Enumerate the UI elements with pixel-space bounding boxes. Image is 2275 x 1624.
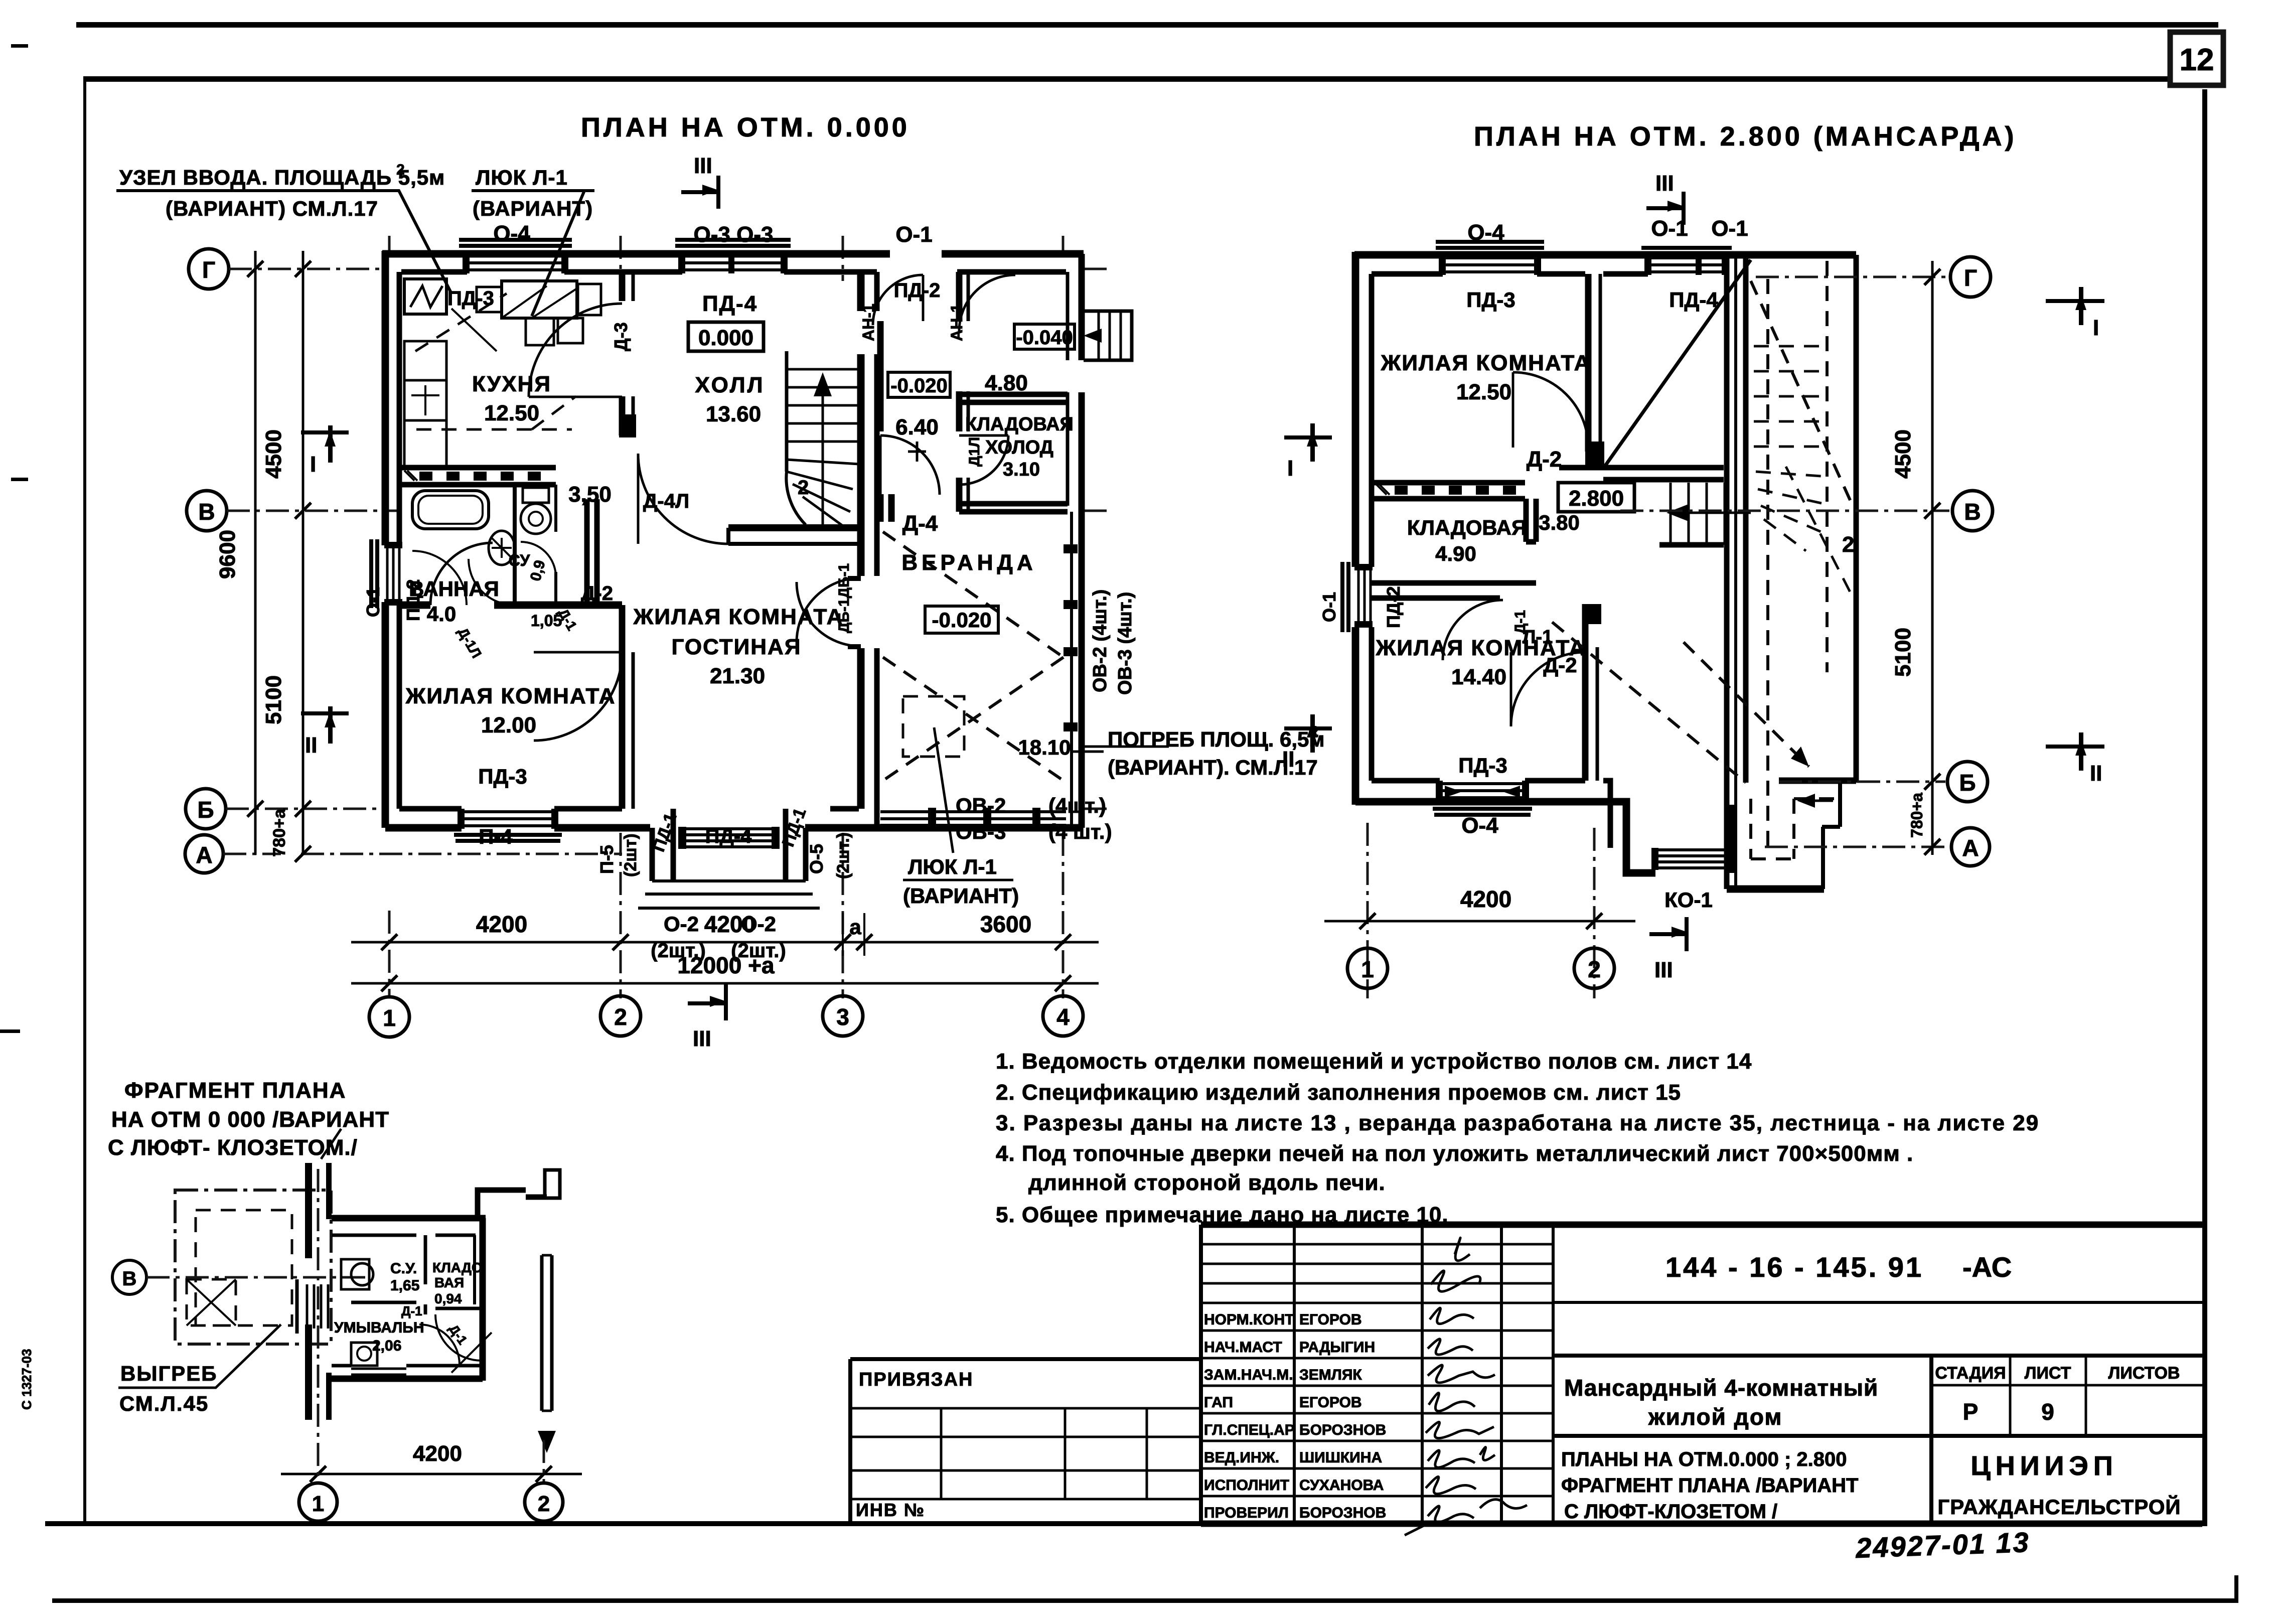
fragment main vertical wall bbox=[297, 1163, 332, 1420]
svg-text:2: 2 bbox=[1842, 532, 1854, 557]
svg-text:ПД-3: ПД-3 bbox=[447, 287, 494, 310]
right plan window О-1 left wall bbox=[1342, 562, 1373, 632]
svg-text:ВЕД.ИНЖ.: ВЕД.ИНЖ. bbox=[1204, 1449, 1279, 1466]
window О-1 left wall bbox=[371, 539, 402, 608]
sheet name cell bbox=[1561, 1448, 1858, 1523]
exterior wall top inner line bbox=[401, 269, 1066, 275]
toilet bbox=[521, 488, 551, 534]
svg-text:4500: 4500 bbox=[1891, 429, 1915, 479]
svg-text:ВАННАЯ: ВАННАЯ bbox=[409, 577, 499, 601]
label ПД-3 bottom bbox=[478, 765, 527, 788]
section mark I right of plans bbox=[2046, 287, 2104, 340]
svg-text:(4 шт.): (4 шт.) bbox=[1048, 820, 1112, 843]
svg-text:Б: Б bbox=[1959, 770, 1976, 796]
svg-text:3.10: 3.10 bbox=[1003, 459, 1040, 480]
label ПД-3 kitchen bbox=[447, 287, 497, 351]
cesspool dashed cross square bbox=[187, 1279, 236, 1325]
kitchen dashed layout lines bbox=[415, 293, 576, 429]
svg-text:ОВ-2 (4шт.): ОВ-2 (4шт.) bbox=[1090, 589, 1111, 692]
svg-text:III: III bbox=[1655, 171, 1674, 196]
title block outer box bbox=[1201, 1225, 2202, 1524]
axis lines vertical left plan bbox=[389, 236, 1063, 998]
cellar hatch dashed square bbox=[903, 696, 964, 757]
label СУ bbox=[509, 551, 549, 583]
svg-text:14.40: 14.40 bbox=[1451, 665, 1506, 689]
svg-text:1: 1 bbox=[1361, 956, 1374, 982]
label Д-2 bbox=[581, 582, 613, 605]
signature table rows bbox=[1201, 1244, 1553, 1496]
stairs right plan dashed winder bbox=[1754, 346, 1850, 592]
svg-text:12: 12 bbox=[2180, 43, 2214, 77]
fragment dimension 4200 bbox=[281, 1169, 582, 1483]
small door arcs wc bbox=[412, 542, 556, 605]
room label КЛАДОВАЯ 4.90 bbox=[1407, 516, 1527, 565]
svg-text:ЛЮК Л-1: ЛЮК Л-1 bbox=[476, 166, 568, 189]
svg-text:6.40: 6.40 bbox=[895, 415, 939, 439]
svg-text:Д-4: Д-4 bbox=[902, 511, 938, 536]
svg-text:2. Спецификацию изделий запо: 2. Спецификацию изделий заполнения проем… bbox=[996, 1080, 1681, 1105]
labels ДБ-1 rotated bbox=[836, 563, 852, 633]
svg-text:4200: 4200 bbox=[1460, 886, 1511, 912]
svg-text:ЦНИИЭП: ЦНИИЭП bbox=[1970, 1451, 2117, 1481]
axis lines horizontal left plan bbox=[223, 269, 1109, 854]
svg-text:ИНВ №: ИНВ № bbox=[856, 1500, 925, 1520]
svg-text:Д-1: Д-1 bbox=[1512, 610, 1529, 634]
svg-text:БОРОЗНОВ: БОРОЗНОВ bbox=[1299, 1422, 1386, 1438]
svg-text:18.10: 18.10 bbox=[1018, 735, 1071, 759]
svg-text:СМ.Л.45: СМ.Л.45 bbox=[119, 1392, 209, 1415]
svg-text:ДБ-1ДБ-1: ДБ-1ДБ-1 bbox=[836, 563, 852, 633]
svg-text:О-4: О-4 bbox=[1461, 813, 1498, 838]
svg-text:ФРАГМЕНТ ПЛАНА /ВАРИАНТ: ФРАГМЕНТ ПЛАНА /ВАРИАНТ bbox=[1561, 1474, 1858, 1497]
svg-text:5100: 5100 bbox=[261, 675, 286, 724]
svg-text:2: 2 bbox=[396, 162, 405, 178]
section mark III top of right plan bbox=[1646, 171, 1686, 225]
svg-text:О-1: О-1 bbox=[363, 587, 383, 617]
veranda left partition wall bbox=[880, 321, 891, 522]
left plan title bbox=[581, 112, 910, 142]
svg-text:С 1327-03: С 1327-03 bbox=[19, 1349, 34, 1410]
labels О-1 ПД-2 rotated left wall bbox=[1319, 586, 1404, 628]
svg-text:СУХАНОВА: СУХАНОВА bbox=[1299, 1477, 1384, 1494]
right plan double wall bbox=[1727, 255, 1746, 889]
svg-text:3600: 3600 bbox=[980, 911, 1031, 937]
svg-text:А: А bbox=[1962, 835, 1979, 861]
labels О-1 ПД-2 left wall bbox=[363, 579, 423, 621]
svg-text:4.90: 4.90 bbox=[1435, 542, 1476, 565]
larder bottom wall bbox=[959, 504, 1068, 512]
window labels О-4 О-1 О-1 right plan bbox=[1467, 216, 1748, 245]
svg-text:780+а: 780+а bbox=[1908, 793, 1926, 838]
svg-text:2: 2 bbox=[538, 1492, 550, 1516]
labels АН-1 rotated bbox=[859, 304, 966, 341]
svg-text:II: II bbox=[1282, 747, 1294, 772]
door Д-3 kitchen arc bbox=[529, 304, 622, 397]
svg-text:I: I bbox=[310, 452, 316, 477]
labels О-5 2шт rotated bbox=[806, 832, 853, 879]
privyazan box bbox=[850, 1359, 1201, 1524]
sheet number box 12 bbox=[2170, 32, 2223, 85]
svg-text:Д1Л: Д1Л bbox=[966, 437, 983, 467]
label Д-3 rotated bbox=[611, 322, 631, 351]
title block middle divider bbox=[1553, 1354, 2202, 1358]
label О-4 right plan bottom bbox=[1461, 813, 1498, 838]
svg-text:ВАЯ: ВАЯ bbox=[434, 1275, 464, 1290]
vent band wall right plan bbox=[1372, 483, 1525, 499]
label 4.80 bbox=[985, 371, 1028, 395]
svg-text:Г: Г bbox=[1964, 265, 1977, 291]
right plan window О-4 top bbox=[1436, 242, 1544, 275]
svg-text:КУХНЯ: КУХНЯ bbox=[472, 372, 551, 396]
svg-text:В: В bbox=[198, 499, 215, 525]
exterior wall left bbox=[385, 251, 399, 828]
svg-text:(2шт.): (2шт.) bbox=[834, 832, 853, 879]
window label О-4 bbox=[493, 221, 530, 246]
svg-text:4500: 4500 bbox=[261, 429, 286, 479]
living-sitting room wall bbox=[622, 605, 633, 809]
svg-text:4200: 4200 bbox=[476, 911, 527, 937]
svg-text:О-2: О-2 bbox=[741, 912, 776, 936]
svg-text:(ВАРИАНТ) СМ.Л.17: (ВАРИАНТ) СМ.Л.17 bbox=[166, 197, 378, 220]
svg-text:КЛАДОВАЯ: КЛАДОВАЯ bbox=[965, 414, 1074, 435]
svg-text:ГРАЖДАНСЕЛЬСТРОЙ: ГРАЖДАНСЕЛЬСТРОЙ bbox=[1937, 1495, 2181, 1519]
svg-text:С ЛЮФТ- КЛОЗЕТОМ./: С ЛЮФТ- КЛОЗЕТОМ./ bbox=[108, 1135, 358, 1160]
svg-text:ПД-4: ПД-4 bbox=[1669, 288, 1718, 312]
svg-text:Д-1: Д-1 bbox=[401, 1303, 422, 1318]
door АН-1 left arc bbox=[873, 275, 923, 325]
svg-text:НА ОТМ 0 000 /ВАРИАНТ: НА ОТМ 0 000 /ВАРИАНТ bbox=[111, 1107, 389, 1132]
kitchen cabinets along left wall bbox=[404, 279, 446, 468]
axis circles left side bbox=[185, 249, 229, 873]
room label КУХНЯ bbox=[472, 372, 551, 425]
doors Д-2 Л-1 arcs right plan middle bbox=[1443, 600, 1585, 726]
door Д-4Л arc bbox=[638, 454, 728, 544]
svg-text:II: II bbox=[305, 733, 317, 758]
window labels О-3 О-3 bbox=[694, 222, 774, 247]
handwritten archive number bbox=[1855, 1526, 2031, 1564]
svg-text:2,06: 2,06 bbox=[372, 1338, 401, 1354]
doors ДБ-1 double arc to living room bbox=[797, 576, 861, 649]
svg-text:ПЛАН НА ОТМ. 2.800 (МАНСАРДА): ПЛАН НА ОТМ. 2.800 (МАНСАРДА) bbox=[1474, 121, 2017, 152]
larder top wall bbox=[959, 394, 1068, 402]
svg-text:-АС: -АС bbox=[1962, 1251, 2012, 1283]
label Д-1Л rotated bbox=[966, 437, 983, 467]
room label ВАННАЯ bbox=[409, 577, 499, 626]
svg-text:3,50: 3,50 bbox=[568, 482, 612, 507]
svg-text:4.0: 4.0 bbox=[427, 602, 456, 626]
svg-text:-0.020: -0.020 bbox=[932, 608, 991, 632]
cesspool dashed outer rect bbox=[175, 1190, 331, 1344]
room2 right wall right plan bbox=[1582, 604, 1601, 781]
fragment toilet bbox=[341, 1259, 373, 1289]
label П-4 bbox=[479, 825, 513, 848]
room label ЖИЛАЯ КОМНАТА 12.50 bbox=[1381, 351, 1591, 404]
svg-text:О-4: О-4 bbox=[1467, 220, 1504, 245]
svg-text:1,65: 1,65 bbox=[390, 1277, 419, 1294]
svg-text:2: 2 bbox=[798, 477, 809, 499]
elevation box 0.000 bbox=[688, 322, 764, 351]
svg-text:780+а: 780+а bbox=[270, 808, 289, 857]
svg-text:1: 1 bbox=[383, 1005, 396, 1031]
svg-text:П-5: П-5 bbox=[596, 845, 617, 874]
elevation box -0.020 veranda bbox=[925, 606, 998, 633]
svg-text:О-1: О-1 bbox=[895, 222, 932, 247]
svg-text:(2шт): (2шт) bbox=[621, 833, 640, 877]
svg-text:21.30: 21.30 bbox=[710, 664, 765, 688]
right plan bottom dimension 4200 bbox=[1324, 886, 1635, 929]
svg-text:НОРМ.КОНТ: НОРМ.КОНТ bbox=[1204, 1311, 1294, 1328]
stairs in hall bbox=[786, 351, 859, 526]
door Д-4 veranda arc bbox=[880, 435, 940, 495]
right plan window ПД-3/О-4 bottom bbox=[1433, 781, 1532, 815]
svg-text:КО-1: КО-1 bbox=[1664, 888, 1713, 912]
label ПД-3 right plan bottom bbox=[1458, 754, 1507, 777]
label ПД-2 tambour bbox=[894, 279, 941, 302]
svg-text:П-4: П-4 bbox=[479, 825, 513, 848]
right plan roof dashed diagonals bbox=[1552, 281, 1853, 783]
title block bottom edge bbox=[1201, 1521, 2202, 1527]
labels Д-2 2800 area bbox=[1512, 447, 1580, 677]
door Д-2 arc right plan top bbox=[1513, 372, 1588, 448]
room label КЛАДОВАЯ ХОЛОД bbox=[965, 414, 1074, 480]
section mark II left of right plan bbox=[1282, 714, 1332, 772]
label ПД-4 hall bbox=[702, 291, 757, 316]
svg-text:ОВ-3: ОВ-3 bbox=[956, 820, 1006, 843]
svg-text:III: III bbox=[1654, 958, 1673, 982]
svg-text:РАДЫГИН: РАДЫГИН bbox=[1299, 1339, 1375, 1356]
svg-text:1: 1 bbox=[312, 1492, 324, 1516]
svg-text:4.80: 4.80 bbox=[985, 371, 1028, 395]
right plan axis lines bbox=[1368, 277, 1949, 998]
window П-4 bottom wall bbox=[454, 809, 562, 841]
signature table labels bbox=[1204, 1311, 1386, 1521]
left vertical dimension lines bbox=[215, 251, 311, 862]
svg-text:-0.020: -0.020 bbox=[890, 375, 947, 397]
svg-text:О-1: О-1 bbox=[1651, 216, 1688, 241]
svg-text:ХОЛОД: ХОЛОД bbox=[985, 437, 1053, 458]
porch bottom middle bbox=[638, 809, 820, 908]
svg-text:3. Разрезы даны на листе 13: 3. Разрезы даны на листе 13 , веранда ра… bbox=[996, 1111, 2039, 1135]
right plan title bbox=[1474, 121, 2017, 152]
fragment right section bar bbox=[538, 1255, 556, 1453]
svg-text:12.50: 12.50 bbox=[484, 401, 539, 425]
svg-text:Д-2: Д-2 bbox=[1527, 447, 1562, 472]
right plan roof dashed verticals bbox=[1768, 255, 1856, 855]
svg-text:ЖИЛАЯ КОМНАТА: ЖИЛАЯ КОМНАТА bbox=[405, 684, 616, 708]
svg-text:Мансардный 4-комнатный: Мансардный 4-комнатный bbox=[1564, 1375, 1878, 1401]
veranda right exterior wall bbox=[1068, 254, 1082, 828]
kitchen-hall wall bbox=[619, 272, 636, 437]
svg-text:ВЕРАНДА: ВЕРАНДА bbox=[901, 550, 1036, 575]
labels ОВ-2 ОВ-3 4шт bottom bbox=[956, 794, 1112, 843]
svg-text:УМЫВАЛЬН: УМЫВАЛЬН bbox=[334, 1319, 424, 1336]
svg-text:длинной стороной вдоль печи: длинной стороной вдоль печи. bbox=[1028, 1170, 1386, 1195]
label ПД-4 right plan top bbox=[1669, 288, 1718, 312]
room label ЖИЛАЯ КОМНАТА 12.00 bbox=[405, 684, 616, 737]
solid roof diagonal in stair void bbox=[1605, 260, 1751, 466]
svg-text:В: В bbox=[1964, 499, 1981, 525]
fragment axis В circle bbox=[112, 1260, 371, 1294]
svg-text:БОРОЗНОВ: БОРОЗНОВ bbox=[1299, 1505, 1386, 1521]
svg-text:ПРОВЕРИЛ: ПРОВЕРИЛ bbox=[1204, 1505, 1289, 1521]
document number 144-16-145.91 bbox=[1553, 1251, 2202, 1302]
svg-text:ПД-4: ПД-4 bbox=[705, 825, 752, 847]
right plan SE dashed step bbox=[1751, 794, 1838, 859]
window О-4 kitchen top bbox=[459, 240, 572, 273]
signature table columns bbox=[1294, 1225, 1553, 1524]
svg-text:3.80: 3.80 bbox=[1539, 511, 1580, 534]
section mark I left side bbox=[301, 425, 349, 477]
svg-text:1. Ведомость отделки помещени: 1. Ведомость отделки помещений и устройс… bbox=[996, 1049, 1752, 1074]
right plan window О-1 top bbox=[1641, 248, 1732, 275]
svg-text:ЛИСТ: ЛИСТ bbox=[2025, 1364, 2071, 1383]
door label О-1 top bbox=[895, 222, 932, 247]
fragment bottom wall bbox=[332, 1366, 483, 1379]
axis circles bottom of left plan bbox=[369, 996, 1083, 1037]
svg-text:ФРАГМЕНТ ПЛАНА: ФРАГМЕНТ ПЛАНА bbox=[124, 1078, 346, 1103]
svg-text:ПД-4: ПД-4 bbox=[702, 291, 757, 316]
svg-text:О-4: О-4 bbox=[493, 221, 530, 246]
svg-text:III: III bbox=[693, 1026, 711, 1051]
veranda dashed floor cross bbox=[883, 532, 1064, 781]
interior wall room1-stairs right plan bbox=[1585, 274, 1604, 466]
hallway partition wall bbox=[587, 499, 597, 602]
leader ПОГРЕБ bbox=[1071, 723, 1324, 779]
svg-text:2: 2 bbox=[614, 1004, 627, 1030]
right plan bottom exterior wall bbox=[1355, 781, 1731, 873]
svg-text:Д-2: Д-2 bbox=[581, 582, 613, 605]
svg-text:О-3 О-3: О-3 О-3 bbox=[694, 222, 774, 247]
elevation box 2.800 bbox=[1558, 483, 1634, 512]
svg-text:(ВАРИАНТ): (ВАРИАНТ) bbox=[903, 884, 1019, 908]
stage table bbox=[1553, 1356, 2202, 1524]
leader note УЗЕЛ ВВОДА bbox=[116, 162, 451, 293]
notes list bbox=[996, 1049, 2039, 1227]
svg-text:АН-1: АН-1 bbox=[859, 304, 877, 341]
labels П-5 2шт rotated bbox=[596, 833, 640, 877]
svg-text:ОВ-2: ОВ-2 bbox=[956, 794, 1006, 817]
svg-text:13.60: 13.60 bbox=[706, 402, 761, 426]
right plan exterior wall left bbox=[1355, 252, 1372, 805]
svg-text:ЛЮК Л-1: ЛЮК Л-1 bbox=[908, 855, 997, 878]
tambour wall vertical bbox=[959, 272, 968, 512]
svg-text:2.800: 2.800 bbox=[1569, 486, 1624, 511]
stair void bottom wall bbox=[1559, 468, 1724, 480]
labels ПД-1 rotated bbox=[649, 806, 810, 854]
veranda south window band ОВ-2 ОВ-3 bbox=[880, 808, 1066, 829]
sheet outer bottom trim line bbox=[52, 1575, 2238, 1603]
section mark I left of right plan bbox=[1284, 423, 1332, 481]
svg-text:О-5: О-5 bbox=[806, 844, 827, 874]
svg-text:ЖИЛАЯ КОМНАТА: ЖИЛАЯ КОМНАТА bbox=[1376, 636, 1586, 660]
svg-text:Б: Б bbox=[197, 797, 214, 823]
larder right wall right plan bbox=[1526, 499, 1536, 542]
svg-text:КЛАДО: КЛАДО bbox=[432, 1260, 483, 1275]
right plan axis circles bottom bbox=[1347, 948, 1614, 988]
label 3.50 hallway bbox=[568, 482, 612, 507]
svg-text:С.У.: С.У. bbox=[390, 1260, 417, 1277]
svg-text:ВЫГРЕБ: ВЫГРЕБ bbox=[120, 1362, 217, 1385]
stairs right plan solid flight bbox=[1659, 483, 1751, 545]
svg-text:ЛИСТОВ: ЛИСТОВ bbox=[2108, 1364, 2180, 1383]
right plan SE solid steps bbox=[1727, 781, 1856, 889]
room label ГОСТИНАЯ 21.30 bbox=[633, 605, 844, 688]
bath-room wall bbox=[401, 543, 622, 605]
svg-text:9600: 9600 bbox=[215, 530, 240, 579]
elevation box -0.040 entry bbox=[1014, 324, 1075, 349]
label ВЫГРЕБ leader bbox=[118, 1324, 281, 1415]
elevation box -0.020 tambour bbox=[888, 372, 950, 397]
wash basin bbox=[489, 531, 515, 565]
svg-text:ЕГОРОВ: ЕГОРОВ bbox=[1299, 1311, 1362, 1328]
svg-text:(2шт.): (2шт.) bbox=[731, 940, 786, 962]
svg-text:ХОЛЛ: ХОЛЛ bbox=[695, 373, 765, 397]
svg-text:Г: Г bbox=[202, 257, 215, 283]
right plan dimension line vertical bbox=[1891, 261, 1940, 855]
svg-text:0.000: 0.000 bbox=[698, 326, 753, 350]
svg-text:А: А bbox=[196, 842, 212, 868]
svg-text:ПД-3: ПД-3 bbox=[1458, 754, 1507, 777]
kitchen table group bbox=[477, 281, 601, 345]
svg-text:ГОСТИНАЯ: ГОСТИНАЯ bbox=[672, 635, 802, 659]
bottom dimension line 12000+d bbox=[351, 952, 1099, 991]
svg-text:(4шт.): (4шт.) bbox=[1048, 794, 1106, 817]
fragment wc partition bbox=[351, 1235, 483, 1314]
label ПД-3 right plan top bbox=[1466, 288, 1515, 312]
cellar leader line bbox=[934, 727, 1169, 853]
fragment right wall bbox=[475, 1218, 483, 1381]
wc partition bbox=[515, 485, 556, 602]
svg-text:4200: 4200 bbox=[413, 1441, 462, 1466]
svg-text:Д-4Л: Д-4Л bbox=[643, 490, 689, 512]
room label ХОЛЛ bbox=[695, 373, 765, 426]
label Д-4 bbox=[902, 511, 938, 536]
fragment plan title bbox=[108, 1078, 389, 1160]
svg-text:С ЛЮФТ-КЛОЗЕТОМ /: С ЛЮФТ-КЛОЗЕТОМ / bbox=[1564, 1501, 1777, 1523]
svg-text:II: II bbox=[2090, 761, 2102, 786]
right plan window КО-1 bbox=[1651, 848, 1735, 870]
label Д-4Л bbox=[643, 490, 689, 512]
svg-text:ЖИЛАЯ КОМНАТА: ЖИЛАЯ КОМНАТА bbox=[633, 605, 844, 629]
label КО-1 bbox=[1664, 888, 1713, 912]
svg-text:ЖИЛАЯ КОМНАТА: ЖИЛАЯ КОМНАТА bbox=[1381, 351, 1591, 375]
fragment door arcs bbox=[419, 1314, 492, 1373]
svg-text:ПД-2: ПД-2 bbox=[1383, 586, 1404, 628]
svg-text:О-2: О-2 bbox=[664, 912, 699, 936]
label 2 near wall bbox=[1842, 532, 1854, 557]
right plan exterior wall top bbox=[1354, 255, 1856, 274]
svg-text:ПРИВЯЗАН: ПРИВЯЗАН bbox=[859, 1369, 973, 1390]
wall on axis 3 between house and veranda bbox=[861, 272, 877, 828]
label ПД-4 porch bbox=[705, 825, 752, 847]
fragment top wall bbox=[332, 1170, 560, 1235]
svg-text:СТАДИЯ: СТАДИЯ bbox=[1935, 1364, 2006, 1383]
bottom dimension line 4200/4200/3600 bbox=[351, 911, 1099, 956]
veranda right wall window marks ОВ bbox=[1064, 544, 1078, 731]
svg-text:5100: 5100 bbox=[1891, 628, 1915, 677]
labels ОВ-2 ОВ-3 4шт vertical bbox=[1090, 589, 1136, 695]
svg-text:Д-3: Д-3 bbox=[611, 322, 631, 351]
svg-text:ГАП: ГАП bbox=[1204, 1394, 1233, 1411]
kitchen-bath wall with vent band bbox=[399, 468, 556, 485]
svg-text:ОВ-3 (4шт.): ОВ-3 (4шт.) bbox=[1115, 592, 1136, 695]
svg-text:НАЧ.МАСТ: НАЧ.МАСТ bbox=[1204, 1339, 1282, 1356]
small door labels Д-1 bbox=[455, 606, 580, 661]
window О-3 О-3 hall top bbox=[675, 240, 791, 273]
hall-sitting room wall below stairs bbox=[728, 528, 861, 544]
section mark II left side bbox=[301, 706, 349, 758]
svg-text:144 - 16 - 145. 91: 144 - 16 - 145. 91 bbox=[1665, 1251, 1923, 1283]
